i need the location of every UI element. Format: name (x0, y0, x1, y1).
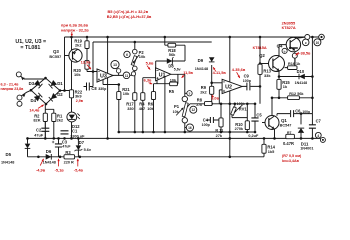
svg-text:10k: 10k (139, 54, 146, 59)
wire R14 column (263, 138, 265, 156)
wire P1 bottom to bus1 (184, 123, 186, 132)
svg-text:3300 uF: 3300 uF (70, 134, 85, 138)
svg-text:1k5: 1k5 (268, 149, 275, 154)
svg-text:0.47R: 0.47R (283, 141, 294, 146)
svg-text:C9: C9 (244, 73, 250, 78)
svg-text:Iкз=3,4Aв: Iкз=3,4Aв (282, 159, 300, 163)
svg-text:82K: 82K (33, 118, 40, 123)
LED D12 (67, 112, 77, 122)
pad 16 (186, 124, 193, 131)
pad Q4 collector (305, 35, 310, 40)
resistor R10 (245, 121, 249, 130)
trimmer RV1 (231, 107, 237, 116)
transistor Q4 (286, 37, 300, 51)
wire bridge bottom column (44, 104, 46, 138)
svg-text:11: 11 (125, 74, 129, 78)
resistor R5 (170, 82, 178, 86)
wire U1 out to P1 (171, 74, 185, 96)
wire C6 row (277, 114, 312, 116)
resistor R11 (219, 118, 223, 127)
svg-text:13: 13 (113, 63, 117, 67)
svg-text:D10: D10 (297, 69, 305, 74)
capacitor C8 (87, 83, 90, 91)
junction dots bus1 (118, 131, 121, 134)
resistor R8 (205, 102, 213, 106)
svg-text:C2: C2 (36, 128, 42, 133)
svg-text:R10: R10 (235, 122, 243, 127)
capacitor C6 (291, 110, 294, 117)
svg-text:4-11,5в: 4-11,5в (213, 70, 227, 75)
svg-text:11,5в: 11,5в (183, 70, 193, 75)
wire Q1 emitter (274, 129, 276, 139)
pad 9 (302, 39, 309, 46)
pad small U3 out (116, 69, 120, 73)
wire bus1 (op-amp V- bus) (119, 131, 255, 133)
svg-text:R3: R3 (65, 150, 71, 155)
wire C8 stub (84, 86, 94, 88)
pad 13 (111, 61, 119, 69)
wire RV1 column (232, 104, 247, 118)
wire pad5 stub (185, 92, 187, 94)
terminal output (320, 137, 325, 142)
svg-text:4: 4 (317, 134, 319, 138)
capacitor C3 (55, 144, 62, 147)
capacitor C4 (210, 117, 213, 123)
svg-text:D12: D12 (72, 124, 80, 129)
svg-text:R16 1k: R16 1k (288, 62, 301, 66)
wire R8 row (187, 104, 256, 108)
svg-text:4-35,6в: 4-35,6в (232, 67, 246, 72)
svg-text:напряж 23,8в: напряж 23,8в (1, 87, 25, 91)
wire U2 out to R13 node (242, 85, 260, 87)
svg-text:b: b (284, 49, 286, 53)
svg-text:12,9в: 12,9в (81, 59, 92, 64)
resistor R1 (52, 113, 56, 121)
wire R4 column (143, 78, 156, 132)
svg-text:5,6v: 5,6v (174, 67, 181, 71)
pad 11 (123, 72, 130, 79)
svg-text:U3: U3 (100, 74, 107, 80)
resistor R7 (0.47R sense) (286, 134, 295, 138)
svg-text:U1: U1 (159, 72, 166, 78)
wire U3 inv riser (93, 42, 97, 87)
junction dots top rail (70, 36, 73, 39)
wire D11 column (300, 114, 302, 139)
svg-text:10k: 10k (147, 106, 154, 111)
wire D5 column (27, 138, 29, 156)
svg-text:R8: R8 (197, 97, 203, 102)
resistor R15 (277, 79, 281, 89)
wire top +V rail (65, 36, 322, 38)
wire bus2 (0V long bus) (28, 137, 321, 139)
circle P2 wiper pad (131, 72, 135, 76)
svg-text:R7: R7 (287, 131, 292, 135)
wire C4 stub (207, 119, 221, 121)
wire U3 noninv to R21 (97, 79, 119, 85)
resistor R12 (288, 96, 300, 100)
svg-text:В2,В5 (=)Гл(-)А-Н=37,8в: В2,В5 (=)Гл(-)А-Н=37,8в (107, 14, 152, 19)
wire C7 column (311, 114, 313, 139)
svg-text:Q2: Q2 (259, 53, 265, 58)
svg-text:330p: 330p (98, 87, 107, 91)
svg-text:R 11: R 11 (215, 129, 223, 133)
svg-text:D3: D3 (29, 81, 35, 86)
wire R1 column (45, 109, 54, 138)
wire P2 riser (134, 42, 136, 49)
terminal +V out (319, 34, 325, 40)
svg-text:(R7 0,5 ом): (R7 0,5 ом) (282, 154, 302, 158)
wire AC input bottom (21, 90, 31, 96)
svg-text:D6: D6 (46, 149, 52, 154)
wire AC input top (21, 76, 46, 79)
svg-text:100p: 100p (243, 79, 252, 83)
pad 10 (314, 39, 321, 46)
svg-text:100p: 100p (202, 123, 211, 127)
svg-text:2,9в: 2,9в (76, 99, 84, 103)
transistor Q3 (69, 49, 82, 62)
svg-text:U2: U2 (225, 84, 232, 90)
wire C3 column (58, 138, 60, 156)
svg-text:RV1: RV1 (239, 106, 248, 111)
wire U3 V+ / V- riser (107, 37, 109, 138)
svg-text:330: 330 (127, 106, 134, 111)
resistor R17 (133, 93, 137, 101)
svg-text:47uF: 47uF (34, 134, 44, 138)
svg-text:D9: D9 (198, 58, 204, 63)
transistor Q2 (269, 56, 285, 72)
svg-text:5.6v: 5.6v (84, 148, 92, 152)
wire Q2 base stub (260, 63, 273, 65)
svg-text:C4: C4 (203, 118, 209, 123)
diode D6 (46, 154, 52, 160)
svg-text:P1: P1 (174, 104, 180, 109)
wire Q4 emitter (294, 50, 296, 67)
svg-text:C8: C8 (91, 86, 97, 91)
resistor R2 (43, 113, 47, 121)
junction dots bus2 (26, 137, 29, 140)
svg-text:-5,1в: -5,1в (55, 168, 65, 173)
svg-text:Q3: Q3 (53, 49, 59, 54)
potentiometer P1 (182, 96, 187, 101)
svg-text:D7: D7 (79, 140, 85, 145)
wire D10 row (279, 76, 312, 78)
svg-text:4-38,5в: 4-38,5в (297, 50, 311, 55)
wire pad16 stub (185, 127, 187, 129)
terminal AC 2 (17, 95, 22, 100)
svg-text:-5,4в: -5,4в (74, 168, 84, 173)
wire U1 V- riser (164, 76, 166, 132)
wire R10 column (246, 104, 248, 132)
transistor Q1 (265, 116, 279, 130)
terminal AC 3 (17, 101, 22, 106)
svg-text:0,2uF: 0,2uF (248, 134, 259, 138)
svg-text:D2: D2 (57, 92, 63, 97)
diode D9 (209, 57, 215, 62)
wire R11 column (220, 104, 222, 132)
svg-text:-4,9в: -4,9в (36, 168, 46, 173)
svg-text:6,3в: 6,3в (144, 78, 152, 83)
capacitor C5 (251, 118, 258, 121)
wire U2 power riser (229, 37, 231, 157)
svg-text:5,6в: 5,6в (146, 61, 154, 66)
wire R18 riser (164, 37, 166, 45)
resistor R6 (151, 92, 155, 100)
potentiometer P2 (133, 49, 138, 54)
wire R22 D12 column (71, 91, 73, 139)
svg-text:33k: 33k (264, 73, 271, 78)
svg-text:напряж - 32,2в: напряж - 32,2в (61, 27, 89, 32)
wire Q3 base stub (65, 55, 71, 57)
junction dots misc (63, 89, 66, 92)
svg-text:220 R: 220 R (64, 160, 74, 164)
svg-text:27k: 27k (216, 134, 223, 138)
wire R5 feedback (176, 74, 179, 83)
op-amp U1 (156, 68, 171, 81)
wire right riser (311, 37, 313, 114)
svg-text:10: 10 (316, 41, 320, 45)
svg-text:4k7: 4k7 (139, 106, 146, 111)
capacitor C7 (309, 125, 316, 128)
wire U2 inv stub (212, 82, 222, 84)
svg-text:10k: 10k (74, 72, 81, 77)
resistor R9 (210, 86, 214, 94)
svg-text:1N4001: 1N4001 (300, 146, 313, 150)
resistor R4 (141, 93, 145, 101)
wire line3 (negative rail) (28, 156, 265, 158)
wire R18 row (165, 45, 185, 61)
wire D9 R9 column (211, 65, 213, 104)
wire U3 out to pad 11 (112, 74, 135, 76)
svg-text:1N4148: 1N4148 (1, 160, 14, 164)
svg-text:3k9: 3k9 (75, 94, 82, 99)
svg-text:BC557: BC557 (49, 55, 61, 59)
capacitor C2 (41, 128, 49, 131)
terminal AC 1 (16, 72, 21, 77)
resistor R19 (85, 41, 89, 49)
wire R21 column (118, 85, 120, 133)
svg-text:10k: 10k (173, 110, 179, 114)
svg-text:2k2: 2k2 (75, 43, 82, 48)
svg-text:Q1: Q1 (281, 118, 287, 123)
diode D4 (bridge) (34, 93, 42, 101)
svg-text:Q4: Q4 (277, 44, 283, 49)
diode D2 (bridge) (49, 93, 57, 101)
wire R16 row (285, 59, 297, 68)
svg-text:100p: 100p (302, 110, 310, 114)
pad Q4 emitter (292, 53, 297, 58)
wire D8 row to U1 noninv (156, 61, 185, 71)
svg-text:12: 12 (192, 108, 196, 112)
svg-text:6,3 - 21,4в: 6,3 - 21,4в (1, 82, 20, 86)
svg-text:C1: C1 (72, 129, 78, 134)
wire R19 R20 column (87, 37, 97, 72)
diode D3 (bridge) (34, 80, 42, 88)
pad B (282, 48, 287, 53)
pad 12 (190, 106, 197, 113)
svg-text:10k: 10k (123, 91, 130, 96)
wire Q2 collector to Q4 base (279, 45, 290, 56)
wire C5 column (254, 104, 256, 132)
wire P2 to R17 column (134, 71, 136, 132)
svg-text:270k: 270k (235, 127, 244, 131)
svg-text:10k: 10k (170, 78, 177, 82)
diode D11 (298, 128, 304, 133)
svg-text:2k2: 2k2 (57, 118, 64, 123)
wire D7 column (77, 138, 79, 156)
resistor R22 (69, 90, 73, 98)
zener D8 (167, 58, 173, 64)
resistor R14 (262, 144, 266, 153)
svg-text:1N4148: 1N4148 (195, 67, 208, 71)
diode D10 (299, 74, 305, 80)
svg-text:6: 6 (126, 53, 128, 57)
zener D7 (76, 145, 82, 150)
op-amp U3 (97, 69, 113, 82)
svg-text:C5: C5 (256, 113, 262, 118)
svg-text:C7: C7 (316, 118, 322, 123)
pad 4 (315, 132, 321, 138)
wire pad stub (118, 73, 120, 75)
resistor R16 (288, 66, 297, 70)
svg-text:1N4148: 1N4148 (43, 160, 56, 164)
wire R12 row (272, 97, 312, 99)
svg-text:16: 16 (188, 126, 192, 130)
op-amp U2 (222, 79, 242, 93)
svg-text:КТ815А: КТ815А (253, 45, 267, 50)
svg-text:D1: D1 (57, 81, 63, 86)
svg-text:1N4148: 1N4148 (295, 81, 308, 85)
capacitor C9 (247, 83, 250, 91)
resistor R13 (258, 64, 262, 74)
svg-text:C6: C6 (295, 109, 301, 114)
wire Q3 column (71, 37, 73, 91)
junction dots line3 (37, 156, 40, 159)
svg-text:D4: D4 (31, 98, 37, 103)
wire R13 rail column (259, 37, 261, 104)
svg-text:= TL081: = TL081 (20, 45, 40, 51)
wire bridge plus riser (60, 37, 72, 91)
wire Q1 base stub (262, 122, 269, 124)
svg-text:R12 56k: R12 56k (289, 92, 304, 96)
svg-text:КТ827А: КТ827А (282, 25, 296, 30)
wire U1 inv net (154, 78, 170, 84)
wire Q2 emitter column (278, 71, 280, 98)
svg-text:27k: 27k (196, 103, 202, 107)
resistor R21 (117, 92, 121, 100)
svg-text:R5: R5 (169, 89, 175, 94)
diode D5 (25, 144, 31, 149)
svg-text:56k: 56k (169, 52, 176, 57)
resistor R20 (85, 60, 89, 69)
diode D1 (bridge) (49, 80, 57, 88)
pad A (124, 51, 130, 57)
svg-text:D5: D5 (6, 152, 12, 157)
resistor R3 (64, 155, 75, 159)
pad 5 (187, 91, 192, 96)
wire bridge diamond (31, 78, 60, 104)
wire Q1 collector (271, 98, 273, 116)
wire net B (U3 inv to D9) (93, 41, 212, 43)
wire U2 noninv stub (219, 90, 222, 104)
wire R6 column (153, 84, 155, 132)
capacitor C1 (61, 131, 69, 134)
svg-text:2k2: 2k2 (200, 89, 207, 94)
svg-text:47uF: 47uF (62, 145, 71, 149)
svg-text:BC547: BC547 (280, 123, 292, 127)
resistor R18 (168, 43, 176, 47)
